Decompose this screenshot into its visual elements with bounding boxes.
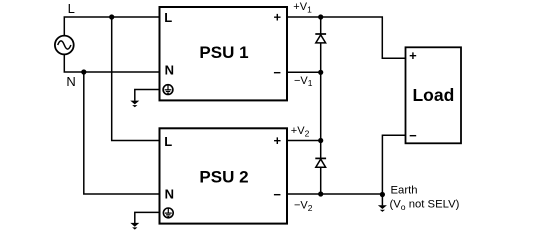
wire L rail from AC source to PSU1 L [64, 17, 158, 36]
PSU1 protective earth terminal [163, 85, 173, 95]
wire PSU1 earth terminal to chassis ground [135, 90, 159, 101]
junction node +V1 [318, 14, 323, 19]
wire Load minus down to earth node [382, 135, 405, 194]
PSU2 protective earth terminal [163, 208, 173, 218]
svg-text:N: N [165, 63, 174, 78]
svg-text:PSU 2: PSU 2 [199, 167, 248, 186]
ground symbol output earth [378, 195, 387, 212]
svg-text:L: L [164, 134, 172, 149]
wire -V2 rail from PSU2 minus to earth node [288, 193, 382, 195]
svg-text:Load: Load [412, 85, 454, 105]
svg-text:+: + [274, 133, 282, 148]
wire +V2 rail from PSU2 + [288, 140, 321, 142]
svg-text:PSU 1: PSU 1 [199, 43, 248, 62]
Load box [406, 47, 462, 143]
ground symbol PSU2 [130, 223, 139, 230]
svg-text:−: − [273, 187, 281, 202]
junction node -V2 [318, 191, 323, 196]
svg-text:N: N [66, 74, 75, 89]
junction earth node [380, 192, 385, 197]
svg-text:−: − [273, 65, 281, 80]
svg-text:N: N [165, 186, 174, 201]
svg-text:−: − [409, 128, 417, 143]
junction node +V2 [318, 138, 323, 143]
junction node on L rail [109, 14, 114, 19]
junction node -V1 [318, 70, 323, 75]
svg-text:+: + [274, 9, 282, 24]
wire N branch down to PSU2 N [84, 72, 159, 194]
diode D2 across PSU2 output [315, 141, 326, 195]
ground symbol PSU1 [130, 101, 139, 108]
ac source V1 (mains) [55, 36, 74, 55]
svg-text:L: L [164, 10, 172, 25]
svg-text:(Vo not SELV): (Vo not SELV) [390, 199, 460, 212]
wire L branch down to PSU2 L [112, 17, 159, 141]
wire +V1 rail from PSU1 + to Load + [288, 17, 406, 58]
wire PSU2 earth terminal to chassis ground [135, 212, 159, 223]
PSU1 box [160, 7, 288, 100]
wire series link -V1 to +V2 [320, 72, 322, 140]
svg-text:Earth: Earth [391, 185, 418, 197]
wire -V1 rail from PSU1 minus [288, 71, 321, 73]
diode D1 across PSU1 output [315, 17, 326, 72]
PSU2 box [160, 128, 288, 223]
svg-text:L: L [68, 1, 75, 16]
wire N rail from AC source to PSU1 N [64, 54, 158, 72]
junction node on N rail [81, 69, 86, 74]
svg-text:+: + [409, 48, 417, 63]
